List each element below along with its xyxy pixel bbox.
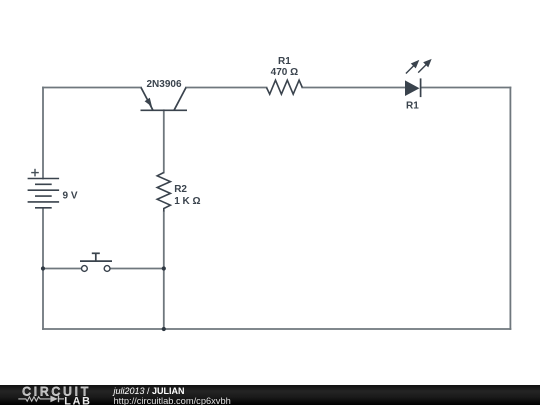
svg-text:1 K Ω: 1 K Ω [174, 196, 200, 207]
emitter diagonal [141, 88, 153, 111]
junction dot (mid rail / button row) [162, 266, 166, 270]
svg-text:2N3906: 2N3906 [147, 79, 182, 90]
right contact circle [104, 266, 110, 272]
svg-text:R2: R2 [174, 184, 187, 195]
wire collector to R1 [186, 87, 267, 89]
svg-text:LAB: LAB [64, 395, 91, 405]
wire left vertical upper (to battery +) [42, 88, 44, 179]
resistor R2 1 K ohm (vertical zigzag) [157, 173, 170, 212]
wire base to R2 top [163, 110, 165, 172]
LED D1 (labelled R1) : anode triangle [405, 80, 420, 96]
resistor R1 470 ohm (zigzag) [267, 80, 303, 94]
button stem [95, 253, 97, 261]
wire top-left (battery + to transistor emitter) [43, 87, 141, 89]
LED cathode bar [420, 78, 422, 97]
button cap [92, 252, 100, 254]
battery plus sign [31, 169, 39, 177]
logo wire after diode [59, 398, 65, 400]
base bar [141, 109, 188, 111]
wire LED cathode to right rail [421, 87, 510, 89]
transistor Q1 2N3906 (PNP) [141, 88, 188, 111]
logo diode triangle [50, 396, 57, 403]
logo diode cathode bar [58, 396, 60, 403]
wire right vertical (LED cathode to bottom rail) [509, 88, 511, 330]
junction dot (left rail / button row) [41, 266, 45, 270]
wire bottom rail [43, 328, 510, 330]
wire button row left [43, 268, 82, 270]
LED light arrow 2 [418, 60, 430, 73]
transistor emitter arrow (PNP, into base) [145, 98, 152, 107]
CircuitLab logo [0, 385, 110, 405]
button plate [80, 260, 112, 262]
footer author line [114, 386, 231, 405]
svg-text:9 V: 9 V [63, 191, 78, 202]
LED light arrow 1 [406, 61, 418, 73]
collector diagonal [174, 88, 186, 111]
svg-text:470 Ω: 470 Ω [271, 67, 298, 78]
wire R2 bottom to bottom rail [163, 212, 165, 330]
wire button row right [110, 268, 164, 270]
footer bar [0, 385, 540, 405]
left contact circle [82, 266, 88, 272]
wire R1 to LED anode [302, 87, 405, 89]
logo wire with resistor zigzag [18, 397, 50, 401]
pushbutton switch SW1 [82, 266, 111, 272]
battery V1 (9 V) [28, 179, 59, 208]
wire left vertical lower (battery - to bottom rail) [42, 208, 44, 329]
svg-text:R1: R1 [278, 56, 291, 67]
svg-text:R1: R1 [406, 101, 419, 112]
junction dot (mid rail / bottom rail) [162, 327, 166, 331]
